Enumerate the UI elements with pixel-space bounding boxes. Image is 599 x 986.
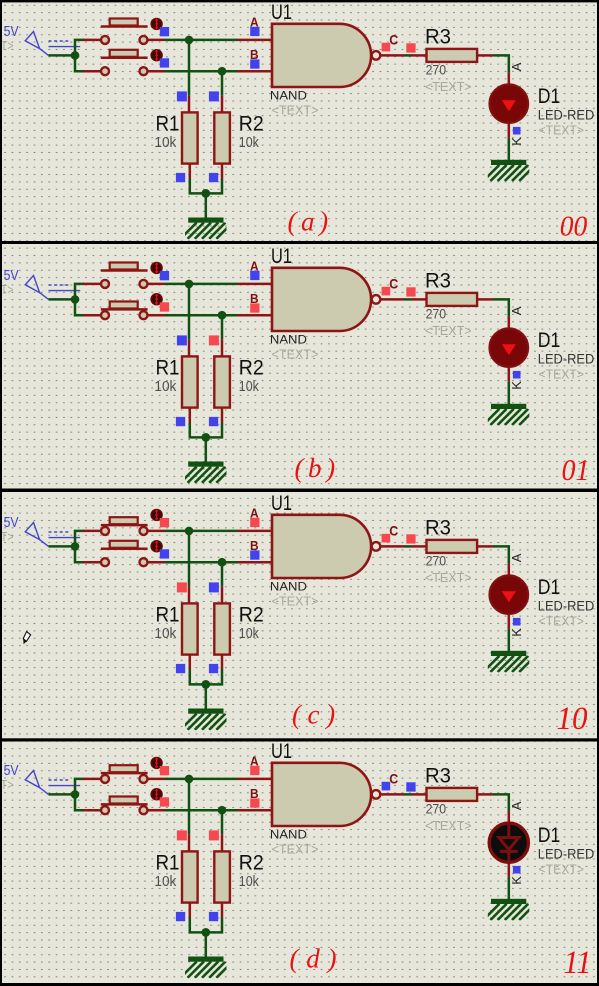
svg-text:11: 11	[564, 945, 592, 981]
logic state square net A	[250, 766, 259, 775]
LED D1 (off)	[489, 823, 528, 862]
logic state square net A	[250, 271, 259, 280]
logic state square at R1 top	[177, 830, 187, 840]
logic state square net C at U1 output	[382, 534, 391, 543]
logic state square at SW2	[160, 549, 169, 558]
panel ( a ) input state 00	[1, 1, 595, 243]
push button SW2 cap (released)	[101, 541, 148, 549]
circuit of panel b	[1, 245, 595, 483]
push button SW1 cap (pressed)	[101, 517, 148, 527]
logic state square net B	[250, 303, 259, 312]
logic state square net C at U1 output	[382, 43, 391, 52]
logic state square at R2 top	[209, 335, 219, 345]
push button SW2 cap (pressed)	[101, 797, 148, 807]
circuit of panel c	[1, 492, 595, 730]
panel ( c ) input state 10	[1, 492, 595, 737]
push button SW1 cap (released)	[101, 19, 148, 27]
svg-text:( a ): ( a )	[288, 207, 329, 237]
logic state square at SW1	[160, 271, 169, 280]
logic state square at SW2	[160, 797, 169, 806]
logic state square net B	[250, 550, 259, 559]
push button SW2 cap (released)	[101, 50, 148, 58]
panel ( b ) input state 01	[1, 245, 595, 487]
logic state square at SW1	[160, 27, 169, 36]
logic state square at R2 top	[209, 582, 219, 592]
svg-text:( c ): ( c )	[292, 700, 335, 730]
LED D1 (lit)	[490, 328, 529, 367]
logic state square net C at R3	[406, 287, 415, 296]
LED D1 (lit)	[490, 575, 529, 614]
circuit of panel a	[1, 1, 595, 239]
push button SW1 cap (released)	[101, 263, 148, 271]
svg-text:00: 00	[560, 212, 588, 243]
logic state square at SW1	[160, 766, 169, 775]
logic state square at R1 top	[177, 582, 187, 592]
logic state square net A	[250, 27, 259, 36]
svg-text:10: 10	[557, 701, 588, 737]
logic state square net C at U1 output	[382, 782, 391, 791]
svg-text:( b ): ( b )	[295, 453, 336, 483]
logic state square at SW1	[160, 518, 169, 527]
logic state square at R1 top	[177, 335, 187, 345]
mouse cursor (pencil)	[23, 632, 30, 645]
panel ( d ) input state 11	[1, 740, 595, 981]
logic state square at SW2	[160, 302, 169, 311]
logic state square net C at R3	[406, 534, 415, 543]
logic state square net C at U1 output	[382, 287, 391, 296]
logic state square at R2 top	[209, 830, 219, 840]
logic state square net A	[250, 518, 259, 527]
push button SW2 cap (pressed)	[101, 302, 148, 312]
push button SW1 cap (pressed)	[101, 765, 148, 775]
LED D1 (lit)	[490, 84, 529, 123]
logic state square net B	[250, 798, 259, 807]
logic state square at R1 top	[177, 91, 187, 101]
circuit of panel d	[1, 740, 595, 978]
svg-text:01: 01	[562, 452, 590, 487]
logic state square net C at R3	[406, 43, 415, 52]
svg-text:( d ): ( d )	[290, 944, 337, 974]
logic state square at SW2	[160, 58, 169, 67]
logic state square net B	[250, 59, 259, 68]
logic state square at R2 top	[209, 91, 219, 101]
logic state square net C at R3	[406, 782, 415, 791]
